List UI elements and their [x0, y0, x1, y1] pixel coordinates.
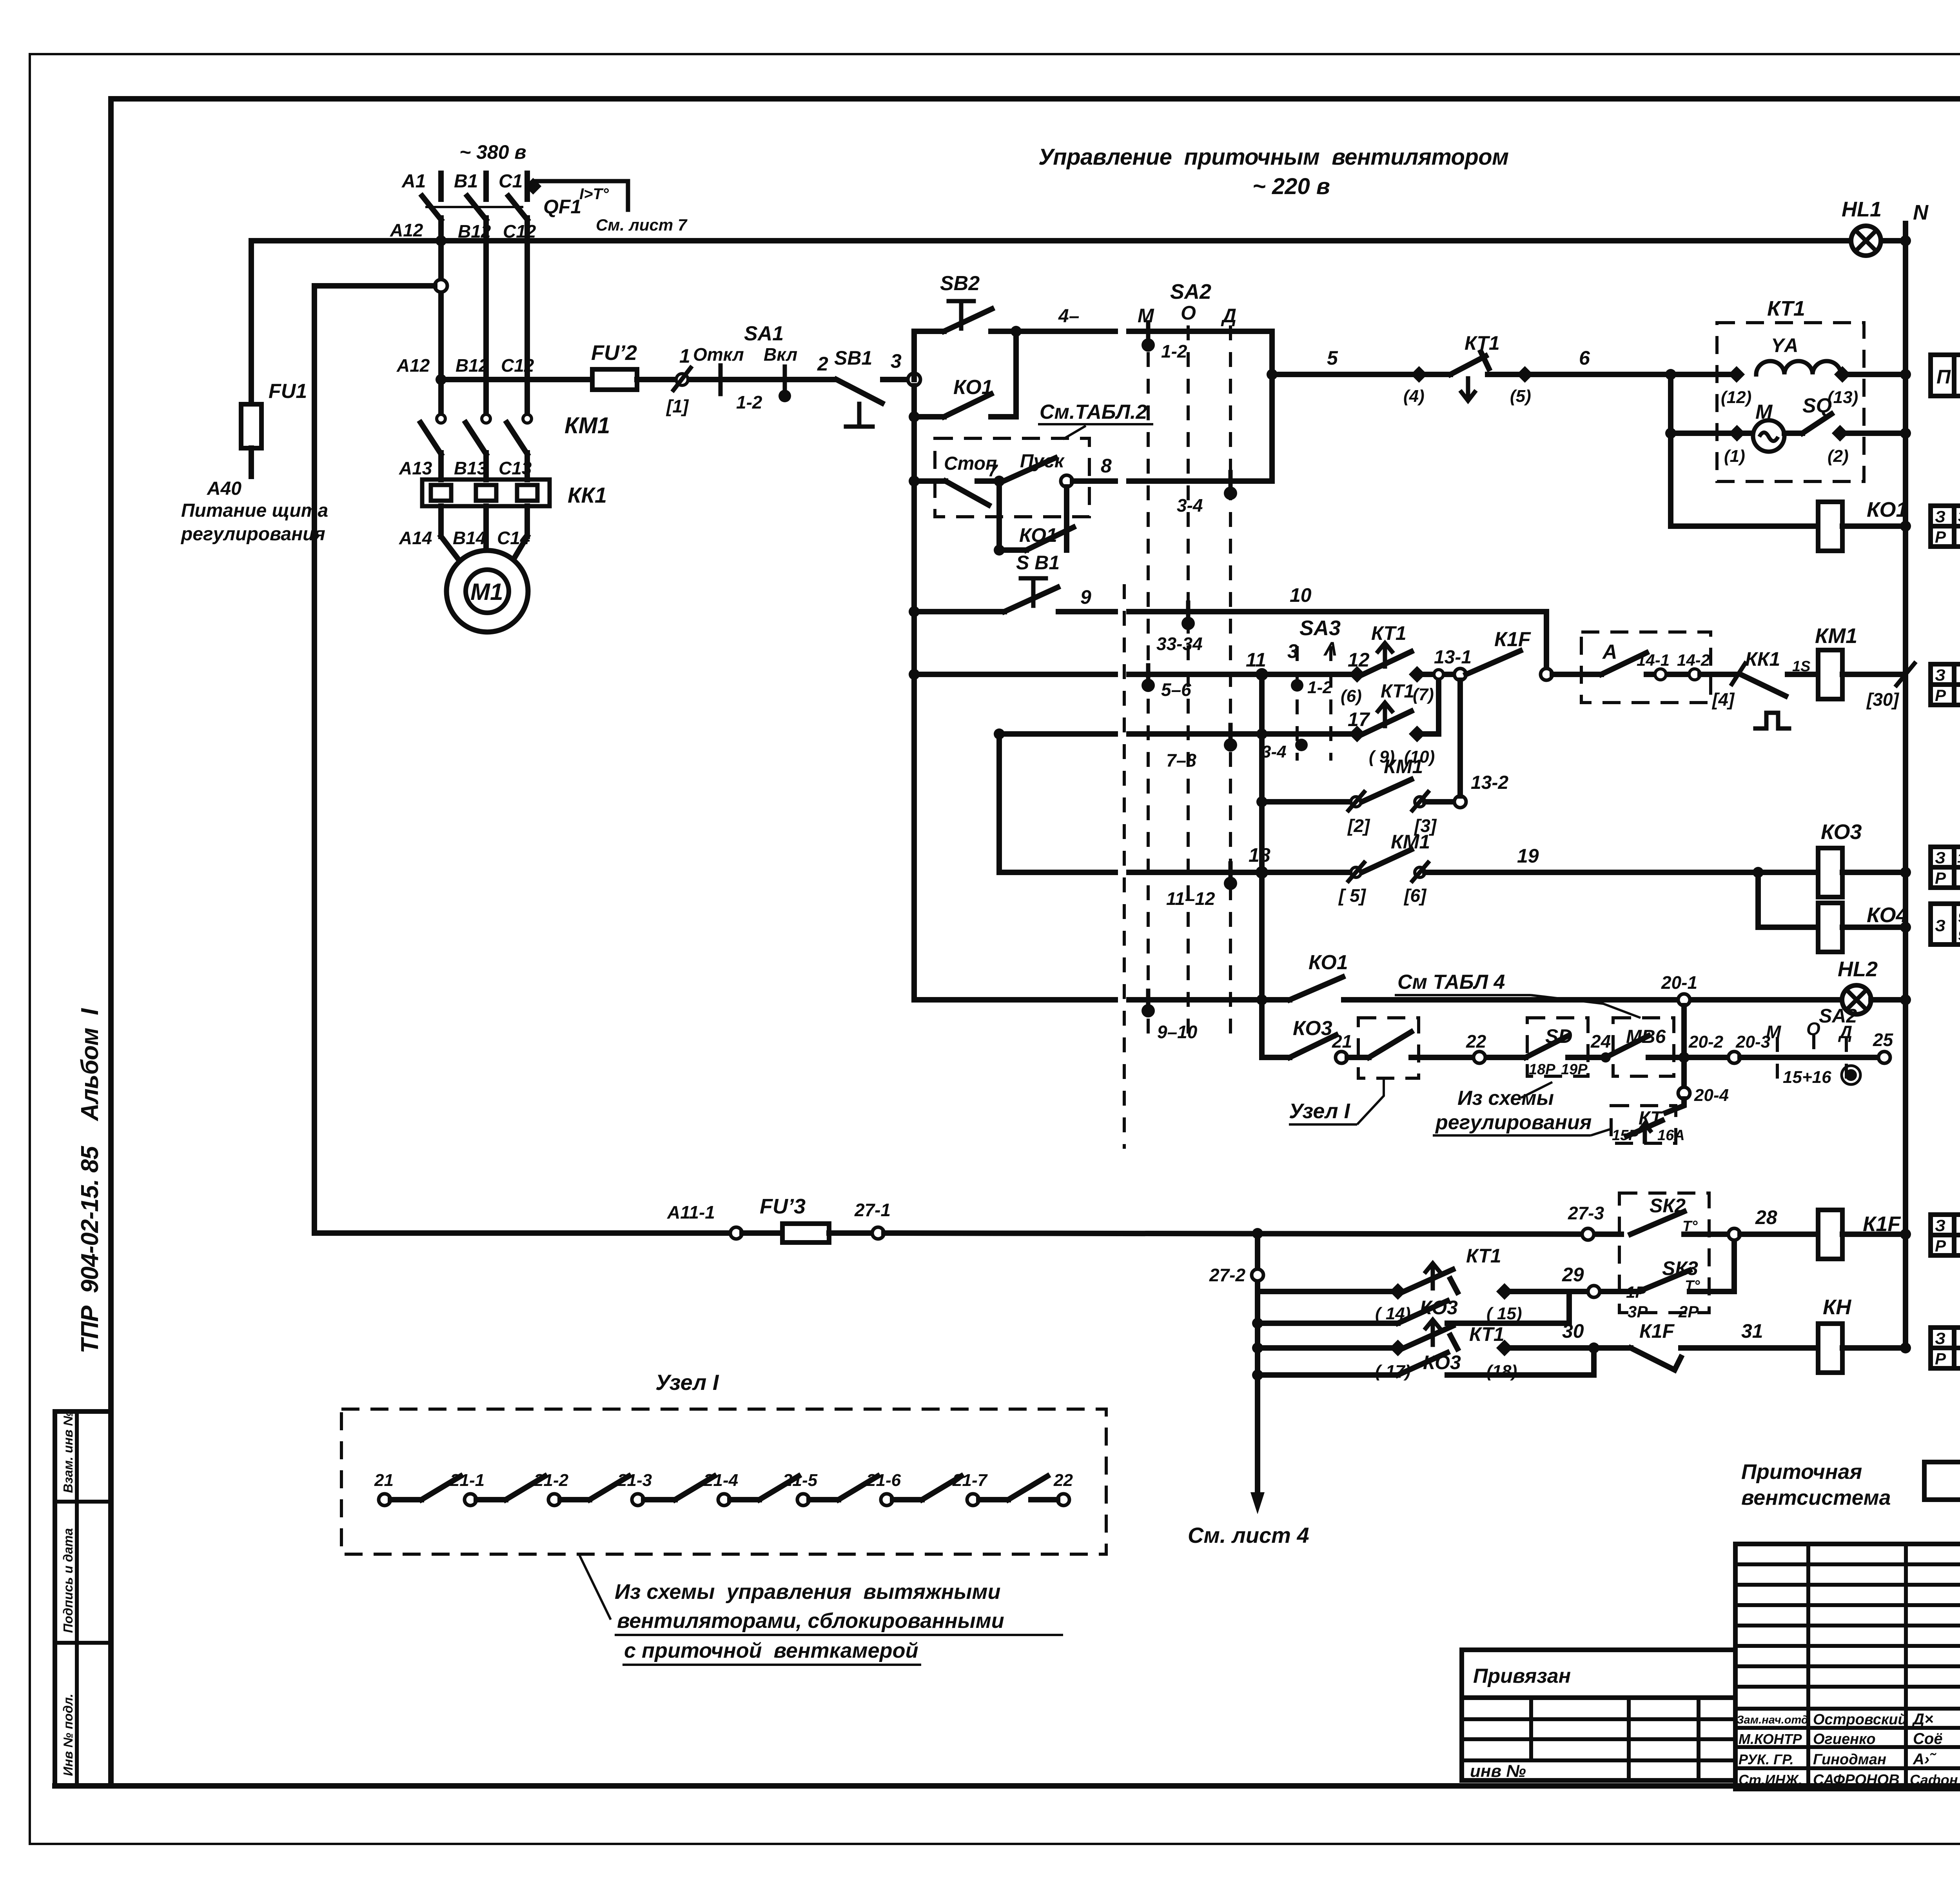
SA1 tick Vkl: [783, 367, 787, 388]
wire SQ to N: [1840, 430, 1906, 436]
SQ blade: [1784, 430, 1802, 436]
node 28: [1728, 1228, 1740, 1240]
title block outer: [1735, 1544, 1960, 1791]
phase A bus below rail: [438, 241, 444, 415]
wire to KM1 coil: [1788, 672, 1818, 677]
svg-text:24: 24: [1590, 1031, 1611, 1052]
wire KO4 to N: [1842, 925, 1906, 930]
svg-text:30: 30: [1562, 1320, 1584, 1342]
riser (10) up to rung11: [1417, 680, 1439, 734]
KT1 actuator rung5: [1466, 378, 1470, 398]
KO3 bypass1: [1252, 1318, 1263, 1329]
closed dot lower SA2: [1845, 1069, 1857, 1081]
lamp HL2: [1842, 985, 1871, 1014]
button SB2 actuator: [959, 301, 964, 329]
svg-text:КМ1: КМ1: [1391, 831, 1430, 853]
KM1 bypass blade: [1362, 779, 1411, 802]
Stop/Pusk dashed box: [935, 438, 1089, 517]
node 24 dot: [1601, 1052, 1611, 1063]
svg-text:В14: В14: [453, 528, 486, 548]
contact KT1 on rung 11 (6) diamond: [1349, 666, 1365, 683]
svg-text:SQ: SQ: [1802, 394, 1832, 417]
junction N rung5: [1900, 369, 1911, 380]
timer KT1 dashed box: [1717, 323, 1864, 481]
svg-text:21-3: 21-3: [617, 1471, 652, 1490]
junction N motor rung: [1900, 428, 1911, 439]
rung KM1 pickup from bus: [909, 669, 920, 680]
svg-text:Зам.нач.отд: Зам.нач.отд: [1737, 1714, 1808, 1726]
svg-text:21: 21: [1332, 1031, 1352, 1052]
svg-text:КК1: КК1: [1745, 648, 1780, 670]
svg-text:М: М: [1766, 1022, 1782, 1042]
node 14-1 circle: [1655, 669, 1666, 680]
svg-text:См ТАБЛ 4: См ТАБЛ 4: [1397, 971, 1505, 994]
node 20-2 junction: [1679, 1052, 1690, 1063]
svg-text:КТ1: КТ1: [1371, 622, 1406, 644]
empty designation rect: [1924, 1462, 1960, 1500]
(13) diamond: [1834, 366, 1851, 383]
junction N KH: [1900, 1342, 1911, 1353]
MB6 contact blade: [1606, 1036, 1648, 1057]
svg-text:SВ1: SВ1: [834, 347, 872, 369]
wire to left riser: [314, 283, 435, 289]
cabinet boundary dashed line: [1123, 584, 1126, 1149]
[6] contact circle slash: [1415, 867, 1425, 877]
svg-text:1-2: 1-2: [1161, 341, 1187, 361]
svg-text:КТ1: КТ1: [1469, 1323, 1504, 1345]
contactor KM1 pole C: [523, 414, 532, 423]
svg-text:10: 10: [1290, 584, 1312, 606]
ref table KO1: [1931, 506, 1960, 547]
wire 4- continues over SA2: [1129, 329, 1272, 334]
svg-text:М: М: [1755, 401, 1773, 423]
svg-text:19: 19: [1517, 845, 1539, 867]
wire HL2 to N: [1871, 997, 1906, 1003]
SA2 O closed dot rung9: [1181, 617, 1195, 630]
svg-text:(5): (5): [1510, 387, 1531, 406]
node 3 circle: [908, 373, 920, 386]
svg-text:(6): (6): [1341, 687, 1362, 706]
K1F fixed circle at riser: [1541, 668, 1552, 680]
thermal contact KK1 slash: [1732, 663, 1745, 684]
svg-text:С12: С12: [501, 355, 534, 376]
svg-text:1-2: 1-2: [736, 392, 762, 412]
uzel chain switch 21: [374, 1471, 461, 1506]
junction N HL2: [1900, 994, 1911, 1005]
svg-text:А11-1: А11-1: [667, 1202, 715, 1222]
svg-text:91, 91, 91, 91: 91, 91, 91, 91: [1958, 909, 1960, 926]
wire 10 over SA2: [1129, 609, 1546, 614]
KK1 blade: [1740, 674, 1786, 696]
svg-text:21-2: 21-2: [534, 1471, 569, 1490]
svg-text:FU’2: FU’2: [591, 341, 637, 365]
SA2 lower columns: [1776, 1037, 1779, 1083]
svg-text:З: З: [1935, 666, 1945, 684]
svg-text:3Р: 3Р: [1628, 1302, 1648, 1321]
junction node 5 start: [1267, 369, 1278, 380]
(4) diamond: [1411, 366, 1427, 383]
thermal relay KK1 box: [422, 480, 550, 506]
svg-text:13,18,19,37,92,92: 13,18,19,37,92,92: [1957, 851, 1960, 866]
(14) diamond: [1390, 1283, 1406, 1300]
svg-text:21-6: 21-6: [866, 1471, 901, 1490]
rung KT1 17-18: [1252, 1342, 1263, 1353]
svg-text:17: 17: [1348, 708, 1370, 730]
svg-text:РУК. ГР.: РУК. ГР.: [1739, 1751, 1794, 1767]
ref table KH: [1931, 1328, 1960, 1368]
svg-text:Р: Р: [1935, 1350, 1946, 1368]
wire 30: [1504, 1345, 1631, 1351]
svg-text:20-1: 20-1: [1661, 972, 1697, 993]
junction N KO4: [1900, 922, 1911, 933]
left riser down to FU3 rung: [312, 286, 317, 1233]
SA2 column D dashed: [1229, 325, 1232, 1043]
neutral line N: [1903, 223, 1908, 1349]
wire YA to N: [1842, 372, 1906, 377]
svg-text:YА: YА: [1771, 334, 1798, 356]
svg-text:[ 5]: [ 5]: [1338, 885, 1367, 906]
svg-text:7: 7: [988, 461, 998, 480]
svg-text:О: О: [1181, 302, 1196, 324]
junction riser motor rung: [1665, 428, 1676, 439]
uzel chain switch 21-2: [534, 1471, 629, 1506]
svg-text:А12: А12: [390, 220, 423, 240]
svg-text:САФРОНОВ: САФРОНОВ: [1813, 1772, 1900, 1788]
junction N KO3: [1900, 867, 1911, 878]
uzel chain switch 21-1: [450, 1471, 545, 1506]
uzel I detail dashed box: [341, 1409, 1106, 1554]
coil KH: [1818, 1324, 1842, 1373]
motor M1 inner circle: [466, 570, 509, 613]
junction A12 on rail: [436, 235, 446, 246]
motor M1 outer circle: [446, 550, 528, 632]
svg-text:КО3: КО3: [1420, 1297, 1458, 1319]
junction N K1F: [1900, 1229, 1911, 1240]
svg-text:См.ТАБЛ.2: См.ТАБЛ.2: [1040, 401, 1147, 423]
svg-text:Огиенко: Огиенко: [1813, 1731, 1876, 1747]
svg-text:(13): (13): [1828, 388, 1858, 407]
coil KO1: [1818, 502, 1842, 551]
svg-text:НL1: НL1: [1842, 198, 1882, 221]
FU3 rung wire: [314, 1230, 730, 1236]
wire inside A box: [1646, 672, 1690, 677]
svg-text:3-4: 3-4: [1261, 742, 1287, 761]
[3] contact circle slash: [1415, 797, 1425, 807]
SA2 D dot rung18: [1224, 877, 1237, 890]
(18) diamond: [1496, 1340, 1513, 1356]
svg-text:инв №: инв №: [1470, 1762, 1526, 1781]
svg-text:регулирования: регулирования: [1435, 1111, 1592, 1134]
svg-text:[6]: [6]: [1403, 885, 1427, 906]
svg-text:С13: С13: [499, 458, 532, 478]
svg-text:А1: А1: [401, 171, 426, 192]
signal rung KO1 from left bus: [914, 997, 1115, 1003]
svg-text:9–10: 9–10: [1157, 1022, 1198, 1042]
bus arrow to sheet 4: [1255, 1375, 1260, 1502]
svg-text:Взам. инв №: Взам. инв №: [61, 1411, 75, 1493]
svg-text:[2]: [2]: [1347, 816, 1370, 836]
svg-text:О: О: [1806, 1019, 1820, 1039]
junction SB2/KO1: [1011, 326, 1022, 337]
KT1 actuator rung17: [1383, 706, 1387, 726]
SB2 branch riser: [911, 331, 917, 380]
svg-text:3,5,12,36,92,92: 3,5,12,36,92,92: [1958, 509, 1960, 525]
svg-text:11: 11: [1246, 649, 1266, 671]
junction N KO1: [1900, 521, 1911, 532]
svg-text:3-4: 3-4: [1177, 495, 1203, 516]
svg-text:Откл: Откл: [693, 344, 744, 365]
KT1 actuator arrow: [1383, 646, 1387, 667]
svg-text:25: 25: [1873, 1030, 1894, 1050]
node 25 circle: [1878, 1052, 1890, 1063]
node 14-2 circle: [1689, 669, 1700, 680]
svg-text:8: 8: [1101, 455, 1112, 477]
SD contact blade: [1526, 1036, 1568, 1057]
svg-text:6: 6: [1579, 347, 1590, 369]
fuse FU3: [742, 1230, 782, 1236]
SB1 test blade: [1004, 587, 1058, 612]
svg-text:5–6: 5–6: [1161, 679, 1191, 700]
second bus from node 7 down: [996, 734, 1002, 872]
svg-text:Р: Р: [1935, 528, 1946, 546]
svg-text:А12: А12: [396, 355, 430, 376]
svg-text:КТ1: КТ1: [1466, 1245, 1501, 1267]
svg-text:См. лист 4: См. лист 4: [1188, 1523, 1309, 1548]
KT1 time contact blade: [1363, 652, 1411, 674]
svg-text:Управление приточным вентиля: Управление приточным вентилятором: [1038, 144, 1509, 170]
svg-text:16А: 16А: [1657, 1127, 1685, 1144]
svg-text:Р: Р: [1935, 869, 1946, 887]
svg-text:вентсистема: вентсистема: [1741, 1486, 1891, 1509]
svg-text:З: З: [1935, 916, 1945, 935]
breaker QF1 pole C blade: [508, 196, 527, 220]
(12) diamond: [1728, 366, 1745, 383]
svg-text:~ 380 в: ~ 380 в: [459, 141, 526, 163]
svg-text:( 15): ( 15): [1486, 1304, 1522, 1323]
joint circle: [1434, 670, 1443, 679]
[5] contact circle slash: [1351, 867, 1361, 877]
svg-text:В13: В13: [454, 458, 487, 478]
junction KO4 branch: [1753, 867, 1764, 878]
svg-text:SА3: SА3: [1299, 616, 1341, 640]
svg-text:(12): (12): [1721, 388, 1751, 407]
svg-text:QF1: QF1: [543, 196, 581, 218]
contactor KM1 pole B: [482, 414, 490, 423]
KO1 out riser to SB2 line: [991, 331, 1016, 417]
svg-text:1-2: 1-2: [1307, 678, 1332, 697]
wire 6: [1525, 372, 1732, 377]
svg-text:Подпись и дата: Подпись и дата: [61, 1528, 75, 1633]
svg-text:(18): (18): [1486, 1362, 1517, 1381]
svg-text:I>T°: I>T°: [579, 185, 609, 203]
YA coil arcs: [1756, 361, 1841, 374]
wire coil KO1 to N: [1842, 523, 1906, 529]
svg-text:18Р: 18Р: [1529, 1061, 1555, 1078]
wire pole B down to rail: [483, 218, 489, 242]
phase B bus: [483, 241, 489, 415]
svg-text:Узел I: Узел I: [1289, 1099, 1350, 1123]
contact KO1 signal blade: [1290, 977, 1343, 1000]
svg-text:S В1: S В1: [1016, 552, 1060, 574]
svg-text:20-4: 20-4: [1694, 1086, 1729, 1105]
uzel rung from riser corner: [1262, 1055, 1290, 1060]
svg-text:21-1: 21-1: [450, 1471, 485, 1490]
wire to 13-1: [1417, 672, 1455, 677]
left grid verticals: [1806, 1544, 1810, 1789]
SA2 D tick on stop rung: [1229, 472, 1233, 490]
svg-text:КН: КН: [1823, 1295, 1851, 1319]
svg-text:Сафон: Сафон: [1910, 1772, 1958, 1788]
svg-text:КО3: КО3: [1821, 820, 1862, 844]
contact KO1 parallel branch: [909, 411, 920, 422]
breaker QF1 pole A blade: [422, 196, 441, 220]
junction on riser rung17: [1256, 728, 1267, 739]
privyazan table: [1462, 1650, 1735, 1781]
svg-text:3: 3: [1287, 640, 1298, 662]
KT1 contact blade rung17: [1363, 711, 1411, 734]
riser 10 down to K1F fixed: [1544, 612, 1549, 668]
svg-text:13-1: 13-1: [1434, 647, 1472, 668]
svg-text:(4): (4): [1403, 387, 1425, 406]
SA1 Vkl closed dot: [779, 390, 791, 402]
SA2 lower contact line: [1740, 1055, 1878, 1060]
node 1 circle with slash: [676, 374, 688, 385]
SA3 1-2 dot: [1291, 679, 1303, 692]
wire coil to N: [1842, 672, 1906, 677]
button SB1 blade: [837, 380, 882, 403]
SK2 contact blade: [1631, 1212, 1684, 1234]
svg-text:91, 91, 91, 91: 91, 91, 91, 91: [1958, 927, 1960, 944]
K1F NC contact: [1631, 1348, 1675, 1370]
wire to A box: [1552, 672, 1601, 677]
svg-text:3: 3: [891, 350, 902, 372]
phase A1 stub: [438, 173, 444, 199]
SB2 out wire: [991, 329, 1016, 334]
(15) diamond: [1496, 1283, 1513, 1300]
svg-text:А: А: [1602, 641, 1617, 663]
wire 27-1 to SK2: [884, 1233, 1621, 1234]
bus 27-2: [1255, 1233, 1260, 1375]
SA2 M dot signal rung: [1142, 1004, 1155, 1017]
wire K1F to N: [1842, 1231, 1906, 1237]
SK2 SK3 dashed box: [1619, 1193, 1709, 1313]
KT1 actuator freeze2: [1431, 1323, 1435, 1345]
svg-text:29: 29: [1562, 1264, 1584, 1286]
(10) diamond: [1409, 726, 1425, 742]
MB6 dashed box: [1613, 1018, 1674, 1076]
contact KO3 uzel blade: [1290, 1035, 1336, 1057]
node 7: [994, 476, 1005, 487]
node 8 circle: [1061, 475, 1073, 487]
svg-text:М1: М1: [470, 579, 503, 605]
svg-text:КО3: КО3: [1293, 1017, 1332, 1040]
right join riser (to node 5): [1269, 331, 1275, 481]
svg-text:КТ1: КТ1: [1767, 297, 1805, 320]
svg-text:Из схемы управления вытяжным: Из схемы управления вытяжными: [615, 1580, 1000, 1604]
Stop NC blade: [946, 481, 989, 505]
svg-text:13-2: 13-2: [1471, 772, 1508, 793]
junction 27-2 bus top: [1252, 1228, 1263, 1239]
svg-text:Д: Д: [1221, 305, 1236, 327]
(1) diamond: [1729, 425, 1745, 441]
node 18: [1256, 866, 1268, 879]
uzel chain node 22: [1031, 1471, 1073, 1506]
node 20-4 circle: [1678, 1087, 1690, 1099]
wire FU2 to node 1: [637, 377, 675, 382]
(2) diamond: [1832, 425, 1848, 441]
timer motor M circle: [1753, 420, 1784, 452]
svg-text:К1F: К1F: [1494, 628, 1531, 651]
svg-text:12: 12: [1348, 649, 1370, 671]
SA3 column L dashed: [1329, 646, 1332, 761]
svg-text:2: 2: [817, 353, 828, 375]
svg-text:Из схемы: Из схемы: [1457, 1087, 1554, 1110]
leader to stop/pusk box: [1063, 426, 1086, 439]
[2] contact circle slash: [1351, 797, 1361, 807]
(5) diamond: [1517, 366, 1533, 383]
svg-text:КК1: КК1: [568, 483, 607, 507]
junction for M branch: [1665, 369, 1676, 380]
rung 5-6 from join: [1272, 372, 1413, 377]
wire to 13-2: [1425, 799, 1454, 805]
svg-text:ТПР 904-02-15. 85 Альбом: ТПР 904-02-15. 85 Альбом I: [76, 1008, 103, 1353]
coil KO4: [1818, 903, 1842, 952]
node C1 feed diamond: [525, 178, 541, 194]
wires KK1 to motor: [438, 506, 444, 536]
wire to KK1 contact: [1700, 672, 1736, 677]
svg-text:З: З: [1935, 507, 1945, 526]
contact KO1 self-hold: [996, 487, 1002, 550]
QF1 trip linkage bracket: [536, 181, 628, 210]
svg-text:Гинодман: Гинодман: [1813, 1751, 1886, 1768]
wire 8 right: [1073, 478, 1115, 484]
ref table KO3: [1931, 847, 1960, 888]
coil K1F: [1818, 1210, 1842, 1259]
svg-text:33-34: 33-34: [1156, 634, 1203, 654]
svg-text:15+16: 15+16: [1783, 1068, 1831, 1087]
svg-text:А›˜: А›˜: [1913, 1751, 1936, 1768]
svg-text:КО4: КО4: [1867, 903, 1908, 927]
node 22 circle: [1474, 1052, 1485, 1063]
svg-text:Приточная: Приточная: [1741, 1460, 1862, 1484]
node 30 dot: [1588, 1342, 1599, 1353]
riser 20-1 to 20-4: [1681, 1006, 1687, 1087]
svg-text:З: З: [1935, 1216, 1945, 1235]
switch SA1 line: [708, 377, 834, 382]
svg-text:FU’3: FU’3: [760, 1195, 806, 1218]
SA3 column 3 dashed: [1296, 646, 1299, 761]
KT actuator: [1643, 1125, 1647, 1142]
wire to node 3: [883, 377, 909, 382]
ref table P rung5: [1931, 355, 1960, 396]
uzel chain switch 21-6: [866, 1471, 961, 1506]
svg-text:КО1: КО1: [1019, 524, 1057, 546]
SA2 D dot rung17: [1224, 738, 1237, 752]
svg-text:С1: С1: [499, 171, 523, 192]
SA2 O tick on rung9: [1186, 603, 1191, 621]
node 13-2 circle: [1454, 796, 1466, 808]
control rung 1: from A12 through FU2: [441, 377, 592, 382]
SA2 M tick rung11: [1146, 665, 1151, 683]
contact K1F blade: [1466, 651, 1520, 674]
node 27-1 circle: [872, 1227, 884, 1239]
rung 17 from second bus: [994, 728, 1005, 739]
rail tail to N: [1881, 238, 1906, 243]
wire pole C down to rail: [524, 218, 530, 242]
breaker QF1 pole B blade: [467, 196, 486, 220]
wire 4-: [1016, 329, 1115, 334]
left control bus from node 3: [911, 386, 917, 1000]
